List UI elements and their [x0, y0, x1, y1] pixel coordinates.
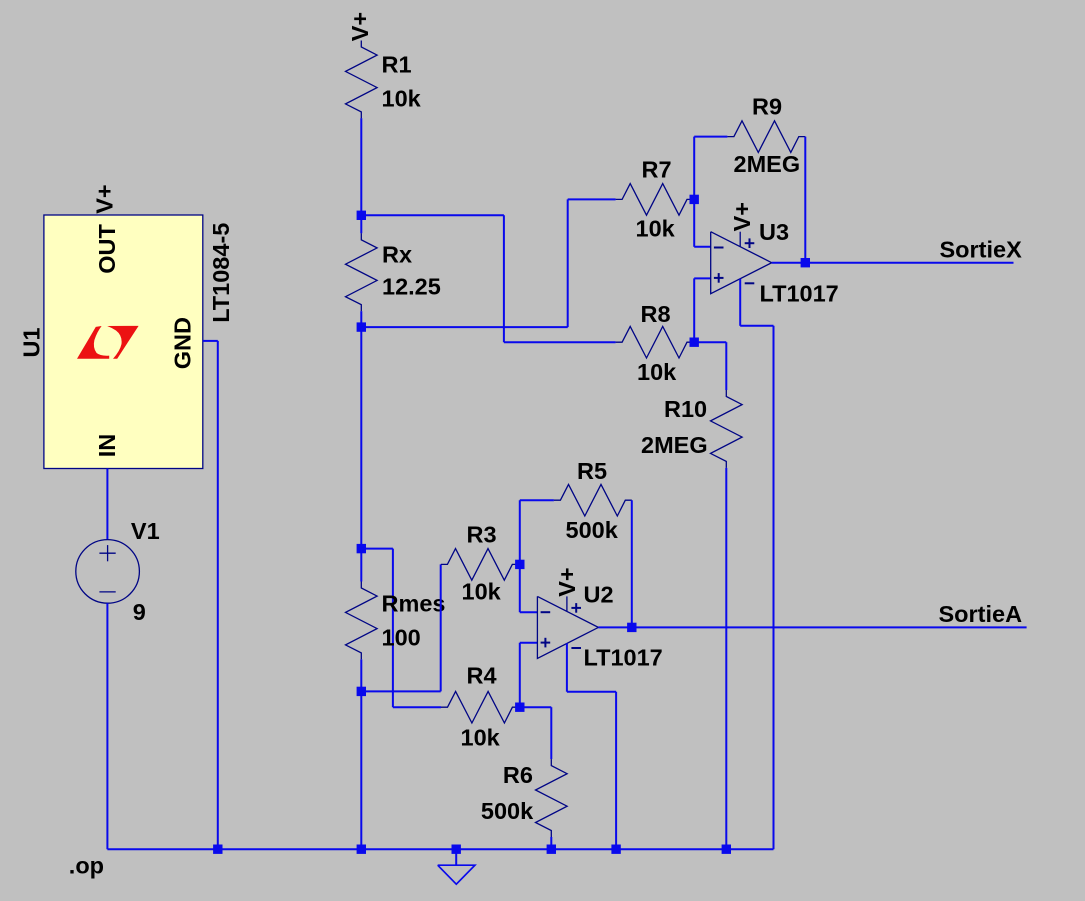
node I (R4 right / U2 plus input) — [515, 703, 524, 712]
node A (R1/Rx junction) — [357, 211, 366, 220]
resistor R8 — [616, 326, 694, 358]
op-amp U2 LT1017 — [537, 596, 598, 658]
wire node D to U3 plus input — [693, 278, 695, 342]
wire down toward R8 — [503, 215, 505, 342]
wire ground rail — [107, 848, 773, 850]
wire R1 bottom to node — [360, 118, 362, 215]
node O (U2 V- on rail) — [611, 845, 620, 854]
resistor R9 — [727, 121, 805, 153]
wire R5 right down to U2 output — [631, 500, 633, 627]
resistor R7 — [616, 184, 694, 216]
svg-text:R5: R5 — [577, 458, 607, 484]
regulator U1 LT1084-5 — [44, 215, 203, 469]
svg-text:R7: R7 — [642, 157, 672, 183]
wire node I to U2 plus input — [519, 643, 521, 707]
svg-text:U3: U3 — [759, 219, 789, 245]
wire node C to U3 minus input — [693, 199, 695, 246]
node H (R3 right / U2 minus input) — [515, 560, 524, 569]
svg-text:10k: 10k — [382, 86, 422, 112]
svg-text:V+: V+ — [347, 12, 373, 41]
svg-text:R6: R6 — [503, 762, 533, 788]
wire V1 bottom to rail — [106, 603, 108, 849]
wire node C up to R9 — [693, 137, 695, 200]
svg-text:Rmes: Rmes — [382, 591, 446, 617]
svg-text:R4: R4 — [467, 663, 497, 689]
resistor Rmes — [360, 549, 362, 582]
node K (U1 GND on rail) — [213, 845, 222, 854]
svg-text:500k: 500k — [481, 798, 534, 824]
svg-text:U2: U2 — [584, 582, 614, 608]
wire to R8 left — [504, 341, 616, 343]
wire node D to R10 top — [694, 341, 726, 343]
svg-text:.op: .op — [69, 852, 104, 878]
svg-text:12.25: 12.25 — [382, 274, 441, 300]
wire U2 V- down and right — [566, 643, 568, 691]
resistor R4 — [441, 691, 519, 723]
wire up toward R7 — [567, 199, 569, 327]
node C (R7 right / U3 inverting input) — [690, 195, 699, 204]
svg-text:2MEG: 2MEG — [641, 432, 708, 458]
svg-text:R3: R3 — [467, 522, 497, 548]
wire up to R3 left — [440, 564, 442, 691]
resistor R5 — [554, 484, 632, 516]
wire U3 output (SortieX) — [772, 262, 1014, 264]
ground — [455, 849, 457, 865]
wire U3 V- down and right — [739, 279, 741, 326]
svg-text:100: 100 — [382, 625, 421, 651]
svg-text:LT1084-5: LT1084-5 — [208, 223, 234, 323]
wire node H up to R5 — [519, 500, 521, 564]
wire node I right to R6 — [520, 706, 552, 708]
svg-text:R1: R1 — [382, 52, 412, 78]
svg-text:V1: V1 — [131, 518, 160, 544]
svg-text:10k: 10k — [462, 579, 502, 605]
wire node A to right — [361, 214, 504, 216]
node M (ground flag on rail) — [452, 845, 461, 854]
svg-text:R9: R9 — [752, 94, 782, 120]
svg-text:10k: 10k — [461, 725, 501, 751]
wire U1 IN pin down to V1 — [106, 469, 108, 541]
op-amp U3 LT1017 — [711, 232, 772, 294]
node D (R8 right / U3 non-inverting input) — [690, 338, 699, 347]
node B (Rx bottom) — [357, 322, 366, 331]
voltage source V1 — [76, 540, 140, 604]
node N (R6 on rail) — [547, 845, 556, 854]
svg-text:LT1017: LT1017 — [760, 281, 839, 307]
node F (Rmes top) — [357, 544, 366, 553]
svg-text:10k: 10k — [637, 359, 677, 385]
svg-text:IN: IN — [94, 434, 120, 458]
LT logo — [77, 326, 139, 359]
wire node B down to Rmes top node — [360, 327, 362, 548]
wire U2 output (SortieA) — [598, 626, 1026, 628]
node P (R10 on rail) — [722, 845, 731, 854]
svg-text:2MEG: 2MEG — [734, 151, 801, 177]
wire U1 GND pin right and down — [203, 340, 218, 342]
node J (U2 output) — [627, 623, 636, 632]
svg-text:500k: 500k — [566, 517, 619, 543]
resistor R6 — [536, 759, 568, 837]
wire node B to right — [361, 326, 567, 328]
resistor R3 — [441, 549, 519, 581]
svg-text:OUT: OUT — [94, 224, 120, 274]
resistor R10 — [711, 390, 743, 468]
svg-text:SortieX: SortieX — [940, 237, 1023, 263]
resistor Rx — [346, 233, 378, 311]
svg-text:GND: GND — [169, 317, 195, 369]
svg-text:R8: R8 — [641, 301, 671, 327]
node G (Rmes bottom) — [357, 687, 366, 696]
node L (Rmes column on rail) — [357, 845, 366, 854]
resistor R1 — [346, 41, 378, 119]
svg-text:U1: U1 — [18, 327, 44, 357]
svg-text:9: 9 — [133, 599, 146, 625]
svg-text:LT1017: LT1017 — [584, 645, 663, 671]
wire node G right to R3 lead — [361, 690, 440, 692]
wire node A to Rx top — [360, 215, 362, 233]
wire node F right and down to R4 — [361, 548, 393, 550]
wire R9 right down to U3 output — [804, 137, 806, 263]
svg-text:Rx: Rx — [382, 242, 412, 268]
svg-text:V+: V+ — [554, 567, 580, 596]
wire node H to U2 minus input — [519, 564, 521, 612]
svg-text:V+: V+ — [92, 184, 118, 213]
wire R10 bottom to ground rail — [725, 468, 727, 849]
wire to R7 left — [568, 198, 616, 200]
svg-text:R10: R10 — [664, 396, 707, 422]
wire R6 bottom to rail — [550, 837, 552, 849]
wire Rx bottom to node B — [360, 311, 362, 327]
svg-text:10k: 10k — [636, 216, 676, 242]
svg-text:V+: V+ — [729, 202, 755, 231]
node E (U3 output) — [801, 258, 810, 267]
wire node G down to rail — [360, 691, 362, 849]
svg-text:SortieA: SortieA — [939, 601, 1023, 627]
